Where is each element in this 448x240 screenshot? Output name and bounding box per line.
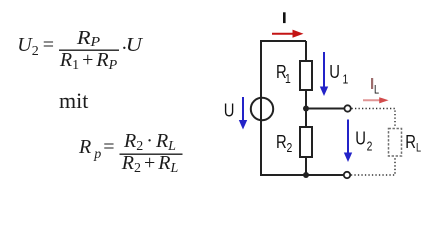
svg-text:U2=: U2=: [17, 34, 54, 59]
svg-text:L: L: [416, 143, 421, 155]
wire middle branch vertical: [305, 41, 307, 175]
svg-text:1: 1: [343, 72, 349, 86]
svg-text:R2+RL: R2+RL: [121, 152, 179, 176]
wire middle horizontal to terminal: [306, 108, 344, 110]
svg-text:R: R: [276, 131, 287, 152]
node junction bottom: [303, 172, 309, 178]
svg-text:U: U: [329, 61, 340, 82]
label I current top: [283, 12, 286, 23]
svg-text:R2·RL: R2·RL: [123, 130, 176, 154]
wire bottom horizontal: [260, 174, 344, 176]
voltage arrow U blue: [239, 97, 247, 130]
svg-text:2: 2: [367, 139, 373, 153]
wire top horizontal: [260, 40, 306, 42]
svg-text:L: L: [374, 85, 379, 97]
svg-text:U: U: [355, 128, 366, 149]
svg-text:U: U: [126, 33, 144, 56]
svg-text:R: R: [405, 131, 416, 152]
label R1: [276, 62, 291, 87]
current arrow I red: [272, 30, 304, 38]
svg-text:Rp=: Rp=: [78, 136, 115, 162]
svg-text:2: 2: [287, 141, 293, 155]
label R2: [276, 131, 292, 155]
resistor R2: [300, 127, 312, 157]
terminal bottom: [344, 172, 350, 178]
svg-text:U: U: [224, 100, 235, 121]
label U1: [329, 61, 348, 86]
wire dotted top to RL: [352, 109, 396, 129]
resistor R1: [300, 61, 312, 90]
terminal top: [344, 105, 350, 111]
wire left branch vertical: [260, 41, 262, 175]
voltage source U: [251, 98, 273, 120]
voltage arrow U1 blue: [320, 52, 328, 96]
formula Rp = (R2*RL)/(R2+RL): [78, 130, 183, 176]
svg-text:R1+RP: R1+RP: [59, 49, 118, 73]
resistor RL dashed: [389, 129, 402, 157]
label IL load current: [371, 78, 379, 97]
formula U2 = RP/(R1+RP) * U: [17, 26, 143, 73]
node junction top: [303, 106, 309, 112]
current arrow IL light red: [363, 97, 389, 103]
svg-text:1: 1: [285, 72, 291, 86]
label U2: [355, 128, 372, 154]
svg-text:RP: RP: [76, 26, 100, 50]
label RL: [405, 131, 421, 154]
wire dotted bottom to RL: [351, 157, 395, 176]
voltage arrow U2 blue: [344, 120, 352, 163]
svg-text:mit: mit: [59, 88, 88, 113]
